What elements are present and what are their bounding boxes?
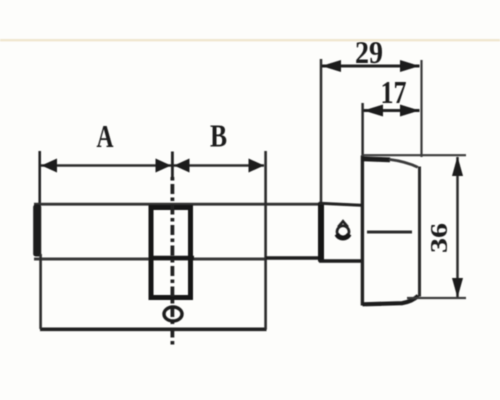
dimension line 17 (364, 109, 420, 112)
center tick at cam axis (171, 152, 174, 178)
cam (center lug) (151, 208, 191, 298)
extension line left (x=40) (38, 151, 41, 205)
svg-text:A: A (97, 118, 114, 154)
knob right edge (418, 167, 421, 297)
extension line 17 left (drops to knob corner) (361, 103, 364, 156)
knob left edge (361, 156, 364, 306)
screw circle (164, 307, 182, 321)
arrow 36 down (452, 278, 463, 298)
block hole bottom arc (337, 234, 349, 238)
cylinder lower-left edge (39, 254, 42, 329)
cylinder body top line (34, 203, 319, 206)
coupling block bottom edge (319, 259, 361, 263)
dimension line 29 (322, 65, 420, 68)
arrow A left (42, 159, 58, 173)
arrow 29 left (322, 60, 342, 72)
coupling block left edge (318, 202, 324, 262)
knob top face thick part (362, 159, 390, 160)
coupling block top edge (319, 203, 361, 205)
knob grip line (367, 231, 412, 234)
arrow B left (174, 159, 190, 173)
arrow 29 right (400, 60, 420, 72)
block hole top point (338, 221, 348, 227)
cylinder right edge (264, 151, 267, 330)
cam divider line (149, 256, 194, 260)
block hole ring (337, 226, 349, 238)
ext line 36 top (362, 154, 466, 156)
svg-text:17: 17 (381, 74, 407, 110)
ext line 36 bottom (407, 297, 466, 299)
arrow B right (249, 159, 265, 173)
center dash-dot line (170, 177, 174, 345)
dimension line 36 (456, 157, 459, 297)
cylinder body bottom line (40, 327, 267, 331)
svg-text:36: 36 (427, 223, 453, 253)
knob bottom face (363, 296, 419, 305)
arrow 17 left (364, 105, 384, 117)
arrow A right (156, 159, 172, 173)
dimension line A-B (41, 164, 264, 167)
cylinder body mid line (34, 258, 266, 261)
svg-text:B: B (210, 118, 227, 154)
extension line 29 left (drops to block) (320, 59, 323, 203)
extension line 29/17 right (420, 60, 422, 157)
cylinder left end cap (33, 205, 41, 257)
arrow 36 up (452, 156, 463, 176)
spindle bottom edge (266, 256, 321, 260)
knob top face slope (389, 159, 418, 167)
faint tan rule (0, 39, 500, 41)
arrow 17 right (400, 105, 420, 117)
